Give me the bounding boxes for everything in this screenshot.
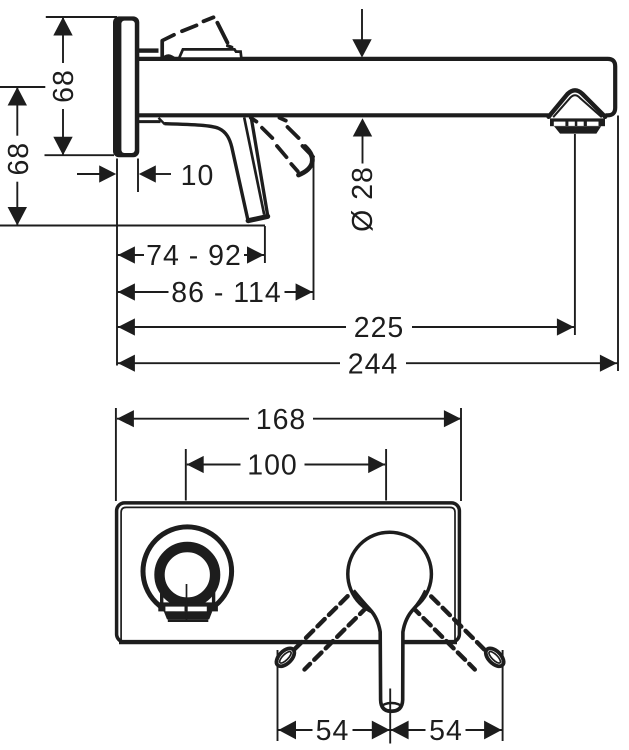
svg-text:68: 68 [48, 69, 80, 103]
svg-text:100: 100 [247, 450, 298, 482]
svg-text:225: 225 [354, 312, 405, 344]
svg-text:168: 168 [256, 404, 307, 436]
svg-text:244: 244 [348, 348, 399, 380]
svg-text:10: 10 [181, 160, 215, 192]
svg-text:74 - 92: 74 - 92 [146, 240, 242, 272]
svg-text:54: 54 [316, 715, 350, 747]
svg-text:68: 68 [3, 142, 35, 176]
svg-text:86 - 114: 86 - 114 [171, 277, 281, 309]
svg-text:Ø 28: Ø 28 [347, 166, 379, 232]
svg-text:54: 54 [429, 715, 463, 747]
